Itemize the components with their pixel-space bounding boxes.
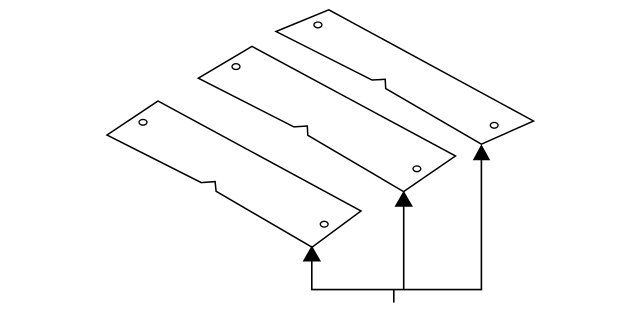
plate 1 (bottom-left sill plate) <box>107 101 361 247</box>
plate 1 left hole <box>139 119 147 125</box>
plate 3 right hole <box>490 122 498 128</box>
plate 3 left hole <box>314 22 322 28</box>
arrow 1 stem <box>311 260 313 290</box>
plate 2 right hole <box>413 166 421 172</box>
plate 1 right hole <box>320 221 328 227</box>
arrow 1 head <box>304 247 321 262</box>
plate 3 (top-right sill plate) <box>276 10 534 144</box>
arrow 3 head <box>474 145 490 160</box>
plate 2 left hole <box>232 64 240 70</box>
plate 2 (middle sill plate) <box>198 46 455 191</box>
arrow 2 head <box>395 192 412 207</box>
arrow 2 stem <box>403 205 405 289</box>
arrow 3 stem <box>480 159 482 290</box>
label leader tick <box>393 290 395 303</box>
connector horizontal line <box>311 289 482 291</box>
